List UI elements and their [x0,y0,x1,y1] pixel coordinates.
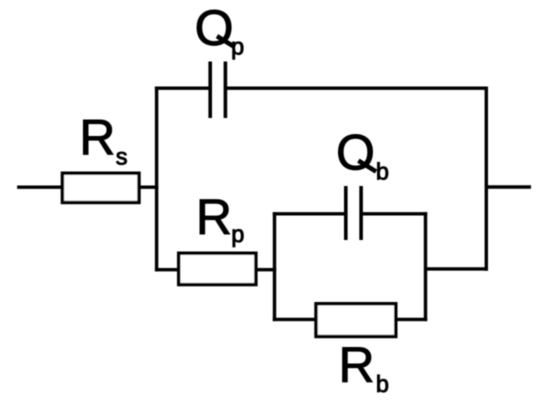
resistor Rs [62,173,139,202]
wire nested top branch right segment [361,212,428,215]
wire right vertical [485,88,488,269]
wire node A left vertical [155,88,158,270]
wire nested bottom branch right segment [394,318,427,321]
label Rb [343,348,388,393]
wire Rp to nested parallel node B [256,268,276,271]
capacitor Qb plate 2 [359,186,363,240]
label Rs [83,120,126,165]
wire input left terminal [17,185,63,188]
capacitor Qb plate 1 [344,186,348,240]
resistor Rb [316,304,396,337]
wire top branch left segment [155,86,211,89]
label Qp [197,10,243,59]
label Rp [200,200,243,247]
wire node A to Rp [155,268,181,271]
resistor Rp [179,253,256,284]
wire nested bottom branch left segment [273,318,317,321]
wire node C to right vertical [424,267,488,270]
capacitor Qp plate 1 [208,62,212,119]
capacitor Qp plate 2 [224,62,228,119]
wire nested left vertical node B [273,214,276,320]
wire nested right vertical node C [424,214,427,320]
wire nested top branch left segment [273,212,347,215]
wire Rs to node A [138,185,158,188]
label Qb [338,134,388,179]
wire top branch right segment [225,86,488,89]
wire output right terminal [486,185,531,188]
